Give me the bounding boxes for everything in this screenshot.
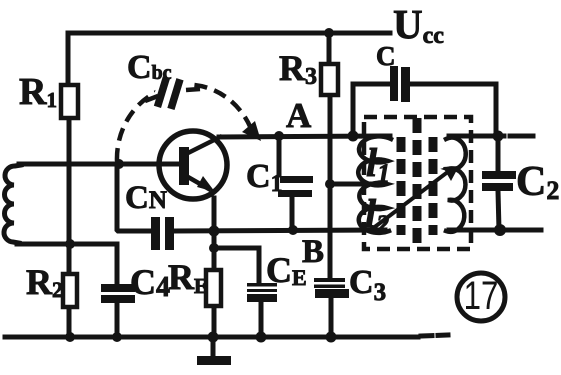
svg-text:C4: C4 (130, 262, 170, 303)
svg-text:RE: RE (168, 257, 208, 298)
svg-text:17: 17 (464, 273, 499, 318)
svg-text:A: A (286, 96, 312, 135)
svg-text:CN: CN (125, 180, 167, 216)
svg-text:R2: R2 (26, 262, 63, 302)
svg-text:l1: l1 (366, 140, 390, 188)
svg-text:C3: C3 (349, 264, 386, 306)
svg-text:l2: l2 (365, 191, 389, 239)
svg-text:B: B (302, 234, 324, 270)
svg-text:R3: R3 (279, 48, 317, 90)
svg-text:Cbc: Cbc (127, 49, 172, 86)
svg-text:CE: CE (266, 250, 307, 290)
svg-text:C2: C2 (516, 159, 559, 205)
svg-text:Ucc: Ucc (393, 1, 444, 49)
svg-text:R1: R1 (19, 71, 57, 113)
